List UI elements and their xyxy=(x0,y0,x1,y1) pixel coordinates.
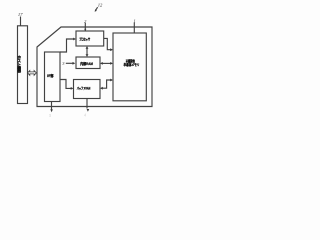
svg-text:4: 4 xyxy=(84,113,86,118)
svg-text:17: 17 xyxy=(18,12,23,17)
tip below I/F leader xyxy=(50,109,53,112)
2 leader tip xyxy=(84,29,86,31)
svg-text:3: 3 xyxy=(62,61,65,66)
nonvolatile memory box 1 xyxy=(113,33,146,101)
host-card double arrow xyxy=(28,71,37,76)
buffer RAM - memory both ends xyxy=(100,87,103,90)
buffer RAM box xyxy=(74,80,101,99)
svg-text:I/F部: I/F部 xyxy=(47,73,54,78)
svg-text:半導体メモリ: 半導体メモリ xyxy=(124,62,140,67)
leader 12 xyxy=(95,7,97,11)
processor box 2 xyxy=(76,31,104,46)
svg-text:器: 器 xyxy=(16,68,21,73)
internal RAM box 3 xyxy=(76,57,100,69)
svg-text:12: 12 xyxy=(98,2,103,7)
leader 3 xyxy=(66,62,74,64)
leader below buffer RAM xyxy=(86,99,88,109)
wire internal RAM to memory xyxy=(101,62,112,64)
wire I/F to buffer RAM xyxy=(60,80,72,89)
host device box 17 xyxy=(18,26,28,104)
RAM-memory both ends xyxy=(100,62,103,65)
12 leader arrowhead xyxy=(95,9,97,12)
leader 1 xyxy=(133,23,135,33)
leader below I/F xyxy=(51,102,53,110)
arrowheads xyxy=(50,9,113,112)
into memory (from processor) xyxy=(110,48,113,51)
svg-text:プロセッサ: プロセッサ xyxy=(79,36,90,41)
3 leader arrowhead xyxy=(73,62,76,65)
I/F block xyxy=(45,52,61,102)
svg-text:内部RAM: 内部RAM xyxy=(80,61,93,66)
wire buffer RAM to memory xyxy=(101,80,112,88)
into processor (from I/F) xyxy=(73,38,76,41)
svg-text:バッファRAM: バッファRAM xyxy=(77,86,91,91)
processor-RAM both ends xyxy=(86,46,89,49)
svg-text:5: 5 xyxy=(49,113,51,118)
memory card outline 12 xyxy=(37,27,152,107)
into buffer RAM (from I/F) xyxy=(71,87,74,90)
tip below buffer leader xyxy=(87,109,90,112)
svg-text:2: 2 xyxy=(84,19,87,24)
svg-text:1: 1 xyxy=(133,19,135,24)
leader 17 xyxy=(20,17,22,26)
wire I/F to processor xyxy=(60,39,75,52)
leader 2 xyxy=(84,23,86,31)
wire processor to memory xyxy=(104,38,112,49)
wire processor to internal RAM xyxy=(86,47,88,56)
